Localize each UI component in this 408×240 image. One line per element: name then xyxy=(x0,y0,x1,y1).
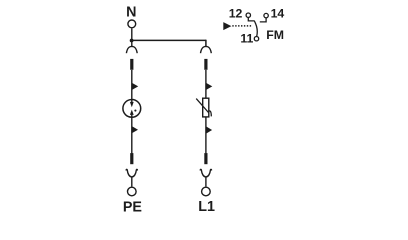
svg-text:11: 11 xyxy=(240,31,253,45)
svg-text:PE: PE xyxy=(123,199,142,215)
svg-text:N: N xyxy=(126,5,136,21)
svg-text:14: 14 xyxy=(271,7,285,21)
svg-text:FM: FM xyxy=(266,28,284,42)
svg-text:L1: L1 xyxy=(198,199,215,215)
svg-text:12: 12 xyxy=(229,7,243,21)
